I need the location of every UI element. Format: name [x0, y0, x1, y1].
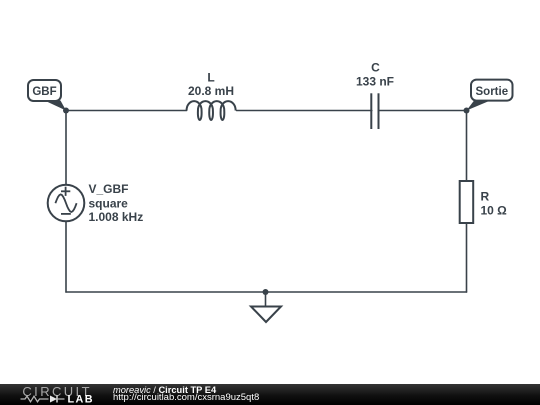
- inductor L coil: [187, 101, 236, 120]
- svg-text:GBF: GBF: [32, 86, 56, 98]
- voltage source sine wave: [55, 194, 76, 212]
- wire top mid: inductor to capacitor: [237, 110, 372, 112]
- CircuitLab logo: [0, 384, 110, 405]
- node GBF dot: [63, 108, 69, 114]
- svg-text:20.8 mH: 20.8 mH: [188, 84, 234, 98]
- svg-text:1.008 kHz: 1.008 kHz: [89, 210, 144, 224]
- svg-text:Sortie: Sortie: [476, 86, 509, 98]
- footer title line: [113, 386, 216, 395]
- footer bar: [0, 384, 540, 405]
- wire left rail upper: node to source: [65, 111, 67, 185]
- voltage source minus sign: [61, 213, 71, 215]
- svg-text:LAB: LAB: [68, 394, 94, 405]
- svg-text:C: C: [371, 61, 380, 75]
- svg-text:R: R: [481, 190, 490, 204]
- ground junction dot: [263, 289, 269, 295]
- voltage source plus sign: [61, 187, 70, 196]
- resistor R body: [460, 181, 474, 223]
- wire right rail lower: resistor to bottom: [466, 223, 468, 292]
- wire top right: capacitor to Sortie node: [378, 110, 466, 112]
- svg-text:133 nF: 133 nF: [356, 75, 394, 89]
- wire left rail lower: source to bottom: [65, 221, 67, 292]
- logo diode: [50, 396, 57, 403]
- svg-text:square: square: [89, 196, 129, 210]
- wire top left: GBF node to inductor: [66, 110, 187, 112]
- capacitor C plates: [371, 93, 378, 129]
- footer url line: [113, 393, 259, 402]
- svg-text:V_GBF: V_GBF: [89, 182, 129, 196]
- node Sortie dot: [464, 108, 470, 114]
- wire ground stub: [265, 292, 267, 307]
- node GBF flag: [28, 80, 66, 111]
- ground: [251, 307, 281, 323]
- svg-text:10 Ω: 10 Ω: [481, 204, 508, 218]
- node Sortie flag: [467, 80, 513, 111]
- svg-text:L: L: [207, 71, 214, 85]
- voltage source V_GBF circle: [48, 185, 85, 222]
- wire right rail upper: Sortie node to resistor: [466, 111, 468, 182]
- wire bottom: left rail to right rail: [66, 291, 467, 293]
- logo resistor zigzag wire: [21, 396, 49, 402]
